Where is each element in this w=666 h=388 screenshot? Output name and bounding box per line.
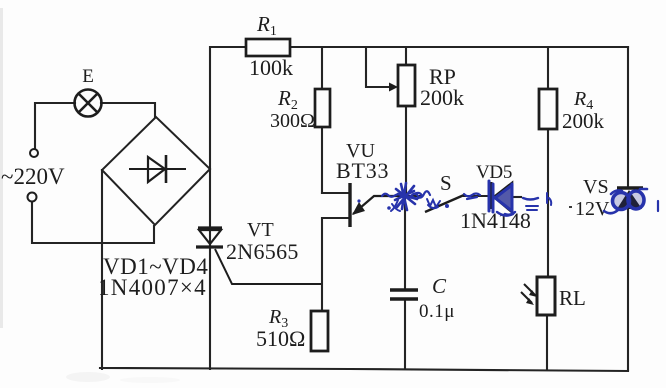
wire: VU base1 lead down to R3 xyxy=(322,218,349,311)
wire: lamp left lead to upper AC terminal xyxy=(35,103,75,148)
wire: RL bottom to rail xyxy=(546,315,548,369)
wire: right rail xyxy=(627,47,629,370)
wire: lower AC terminal to bridge bottom corner xyxy=(32,202,154,243)
wire: emitter junction to switch S xyxy=(405,195,421,197)
resistor R4 xyxy=(539,89,557,129)
svg-text:200k: 200k xyxy=(562,109,605,133)
blue scribble: dots xyxy=(357,199,360,202)
wire: emitter junction down to capacitor C xyxy=(404,196,406,369)
wire: switch to VD5 xyxy=(464,195,490,197)
blue scribble: dashes right of VD5 xyxy=(523,198,538,200)
switch S blade xyxy=(425,195,464,212)
blue scribble: marks before VD5 xyxy=(464,194,480,200)
svg-text:1N4148: 1N4148 xyxy=(460,208,531,233)
resistor R3 xyxy=(311,311,328,351)
blue scribble: over diode VD5 xyxy=(489,181,512,213)
svg-text:300Ω: 300Ω xyxy=(270,110,315,132)
svg-text:VS: VS xyxy=(583,176,609,198)
wire: RP wiper stub with arrow xyxy=(366,47,389,87)
blue scribble: X blob at junction xyxy=(395,183,417,210)
photoresistor RL xyxy=(537,277,555,315)
wire: R2 branch from top rail xyxy=(321,47,323,193)
wire: top rail xyxy=(212,46,628,48)
blue scribble: exclamation right of VS xyxy=(657,201,659,211)
bridge diode symbol xyxy=(129,155,186,183)
bridge rectifier VD1~VD4 diamond xyxy=(102,117,210,225)
diode VD5 xyxy=(491,182,512,212)
blue scribble: tick at R4 line junction xyxy=(547,193,551,205)
wire: bridge left corner down to bottom rail xyxy=(101,170,103,369)
zener diode VS xyxy=(617,186,643,190)
wire: VU base2 lead xyxy=(322,192,349,194)
wire: VD5 to R4/RL line xyxy=(512,196,521,198)
svg-text:VD5: VD5 xyxy=(476,162,512,183)
thyristor VT xyxy=(196,228,321,284)
svg-text:S: S xyxy=(440,171,452,195)
svg-text:2N6565: 2N6565 xyxy=(226,239,299,264)
wire: bottom rail xyxy=(100,368,628,371)
svg-text:200k: 200k xyxy=(420,85,464,110)
blue scribble: over zener VS xyxy=(613,193,630,210)
svg-text:BT33: BT33 xyxy=(336,158,389,183)
wire: left vertical (bridge + output to top rail and down through VT) xyxy=(209,47,211,369)
svg-text:100k: 100k xyxy=(249,55,293,80)
svg-text:~220V: ~220V xyxy=(1,164,65,189)
unijunction transistor VU BT33 xyxy=(350,183,405,227)
RL light arrows xyxy=(521,284,535,303)
svg-text:510Ω: 510Ω xyxy=(256,326,305,351)
svg-text:VT: VT xyxy=(247,219,274,241)
capacitor C xyxy=(390,290,418,299)
scan edge shading xyxy=(0,8,3,328)
VU emitter arrowhead xyxy=(352,202,365,215)
resistor R1 xyxy=(246,39,290,56)
svg-text:1N4007×4: 1N4007×4 xyxy=(98,275,207,300)
svg-text:RL: RL xyxy=(559,286,586,310)
wire: R4 branch from rail xyxy=(547,47,549,277)
potentiometer RP xyxy=(398,65,415,106)
lamp E xyxy=(75,90,102,117)
svg-text:12V: 12V xyxy=(575,198,610,220)
blue scribble: w marks left of switch xyxy=(427,199,440,208)
blue scribble: wavy line over emitter junction xyxy=(382,191,430,197)
svg-text:0.1μ: 0.1μ xyxy=(419,301,455,322)
AC terminal lower xyxy=(28,193,37,202)
wire: lamp right lead to bridge top corner xyxy=(101,103,155,117)
blue ink scribbles xyxy=(357,181,658,216)
RP wiper arrowhead xyxy=(389,83,398,92)
AC terminal upper xyxy=(30,149,38,157)
resistor R2 xyxy=(315,89,330,127)
svg-text:C: C xyxy=(432,274,447,298)
svg-text:E: E xyxy=(82,66,94,87)
wire: RP branch vertical xyxy=(405,47,407,196)
